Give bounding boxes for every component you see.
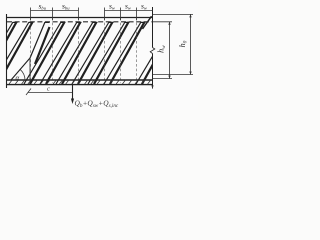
svg-text:c: c [47,86,50,93]
svg-text:α: α [16,74,20,82]
